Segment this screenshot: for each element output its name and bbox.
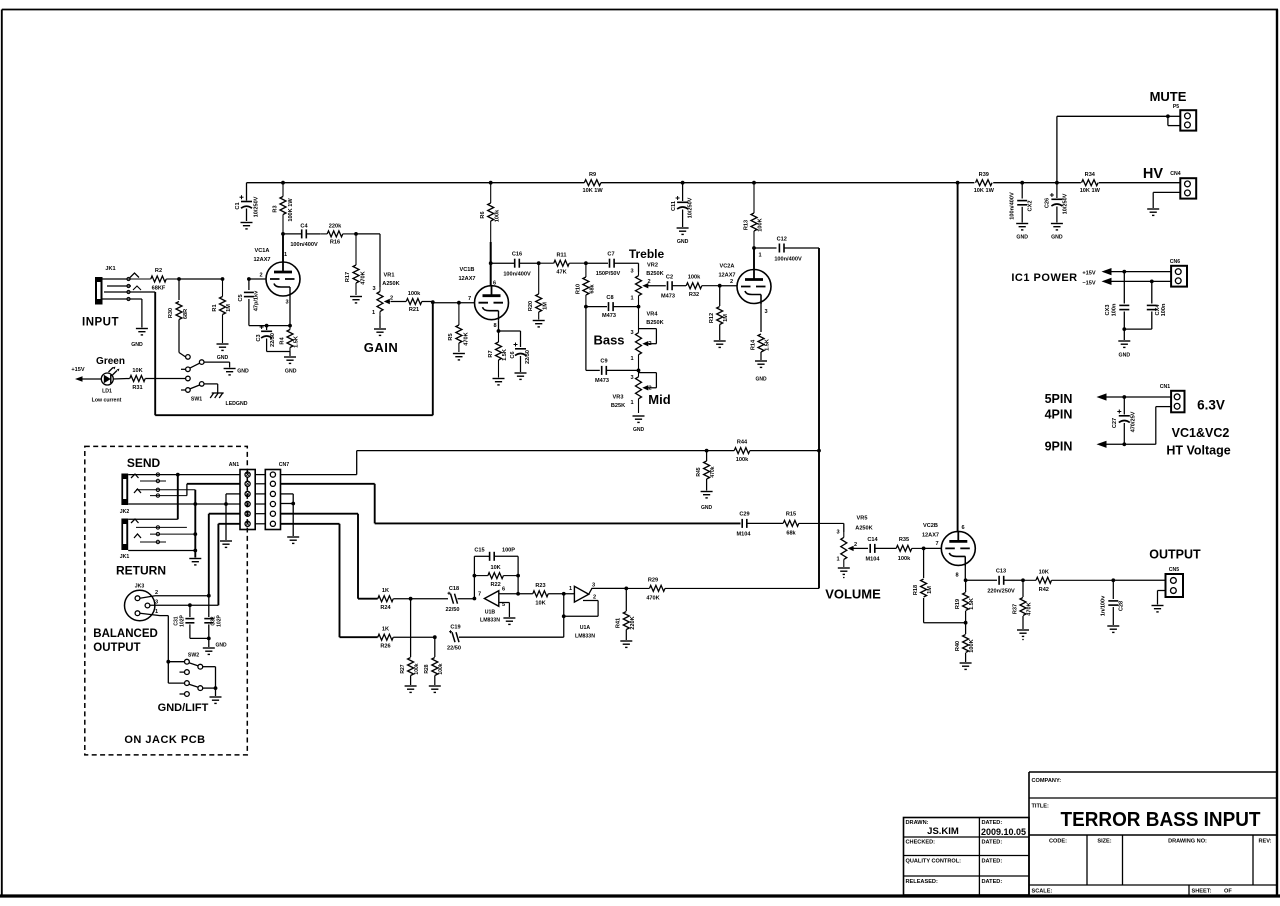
resistor R3 <box>273 183 295 234</box>
svg-text:100k: 100k <box>898 556 911 562</box>
node R35/R18 <box>922 547 926 551</box>
op-amp U1B LM833N <box>473 587 506 624</box>
capacitor C16 <box>491 252 539 278</box>
wire HT to VC2B plate <box>957 183 959 532</box>
wire CN4 ground <box>1153 192 1180 208</box>
ground below R1 <box>217 344 229 361</box>
connector JK2 send jack <box>120 473 240 515</box>
capacitor C28 <box>1101 580 1125 625</box>
svg-text:VC1A: VC1A <box>255 248 270 254</box>
svg-text:B25K: B25K <box>611 403 625 409</box>
label VC2A <box>718 264 735 279</box>
svg-text:CN4: CN4 <box>1170 171 1180 177</box>
connector CN5 <box>1166 567 1184 597</box>
svg-text:R14: R14 <box>751 339 757 350</box>
svg-text:C7: C7 <box>607 252 614 258</box>
svg-text:GND: GND <box>237 369 249 375</box>
svg-text:22/50: 22/50 <box>447 646 461 652</box>
wire MUTE branch <box>1057 114 1180 182</box>
ground below R27 <box>405 686 417 692</box>
node C12/R44 <box>817 449 821 453</box>
resistor R16 <box>320 224 356 246</box>
resistor R39 <box>974 172 995 194</box>
svg-text:102P: 102P <box>180 615 186 627</box>
node R11/R10/C7 <box>584 261 588 265</box>
svg-text:8: 8 <box>493 323 496 329</box>
svg-text:3: 3 <box>836 530 839 536</box>
svg-text:10K: 10K <box>1039 570 1049 576</box>
svg-text:QUALITY CONTROL:: QUALITY CONTROL: <box>906 859 962 865</box>
label SIZE <box>1097 839 1111 845</box>
capacitor C19 <box>447 625 564 652</box>
svg-text:2: 2 <box>593 595 596 601</box>
ground below VR5 <box>838 568 850 578</box>
svg-text:OUTPUT: OUTPUT <box>93 642 140 654</box>
label DATED 2 <box>982 840 1003 846</box>
svg-text:100K: 100K <box>758 218 764 231</box>
svg-text:M473: M473 <box>595 378 609 384</box>
resistor R15 <box>783 512 844 537</box>
ground below C11 <box>677 228 689 245</box>
svg-text:OF: OF <box>1224 889 1232 895</box>
node R32/R12 <box>718 284 722 288</box>
resistor R10 <box>576 263 596 306</box>
svg-text:JK1: JK1 <box>120 554 130 560</box>
svg-text:C12: C12 <box>777 237 787 243</box>
node grid VC1B <box>431 300 461 304</box>
svg-text:CX3: CX3 <box>1105 305 1111 316</box>
svg-text:R39: R39 <box>979 172 989 178</box>
svg-text:AN1: AN1 <box>229 462 239 468</box>
ground below C28 <box>1107 626 1119 632</box>
wire CX3 CX4 common <box>1122 327 1151 340</box>
potentiometer VR1 A250K <box>372 273 400 317</box>
svg-text:1.5K: 1.5K <box>969 598 975 610</box>
wire +15V arrow <box>75 376 101 381</box>
resistor R11 <box>539 253 586 276</box>
wire cathode VC1B <box>497 320 521 333</box>
wire feedback loop to input jack <box>155 292 433 415</box>
capacitor C7 <box>586 252 639 278</box>
svg-text:100k: 100k <box>736 457 749 463</box>
wire AN1 pin3 ground <box>224 494 240 540</box>
ground below R37 <box>1017 630 1029 640</box>
label MUTE <box>1150 89 1187 104</box>
svg-text:1M: 1M <box>543 302 549 310</box>
svg-text:LEDGND: LEDGND <box>226 401 248 407</box>
node R1 grid line <box>221 277 225 281</box>
capacitor C4 <box>283 224 320 249</box>
ground below CX2 <box>1016 224 1028 241</box>
svg-text:68KF: 68KF <box>152 286 166 292</box>
svg-text:10/250V: 10/250V <box>1063 193 1069 214</box>
wire SW1 to GND <box>204 362 230 367</box>
node R24/R27 <box>409 597 413 601</box>
wire +15V line <box>1102 268 1172 275</box>
svg-text:3: 3 <box>630 269 633 275</box>
wire send tip to return tip <box>177 475 179 520</box>
label HT Voltage <box>1166 444 1230 458</box>
svg-text:100k: 100k <box>688 275 701 281</box>
resistor R45 <box>696 451 716 491</box>
wire SW2 common <box>203 667 218 696</box>
svg-text:Mid: Mid <box>648 392 670 407</box>
svg-text:8: 8 <box>955 573 958 579</box>
potentiometer VR5 A250K <box>836 516 872 568</box>
svg-text:22/50: 22/50 <box>525 350 531 364</box>
resistor R5 <box>448 303 470 352</box>
label RETURN <box>116 564 166 578</box>
feedback network U1B vertical left <box>473 556 477 598</box>
svg-text:GND: GND <box>677 239 689 245</box>
svg-text:R16: R16 <box>330 240 340 246</box>
label Mid <box>648 392 670 407</box>
svg-text:SEND: SEND <box>127 456 161 470</box>
svg-text:CN1: CN1 <box>1160 384 1170 390</box>
svg-text:1K: 1K <box>382 627 389 633</box>
svg-text:3: 3 <box>630 330 633 336</box>
switch SW1 <box>181 355 204 403</box>
capacitor C2 <box>649 275 686 300</box>
op-amp U1A LM833N <box>562 583 596 640</box>
node VR4 bottom / C9 <box>637 369 641 373</box>
svg-text:470K: 470K <box>464 332 470 345</box>
node R2/R30 <box>177 277 181 281</box>
svg-text:HT Voltage: HT Voltage <box>1166 444 1230 458</box>
svg-text:R34: R34 <box>1085 172 1096 178</box>
ground below R17 <box>350 297 362 303</box>
wire grid VC2A <box>720 285 737 287</box>
svg-text:10K 1W: 10K 1W <box>974 188 995 194</box>
capacitor C1 <box>235 183 260 221</box>
capacitor CX3 <box>1105 272 1129 330</box>
label VOLUME <box>825 587 881 602</box>
svg-text:100n: 100n <box>1161 303 1167 316</box>
wire send ground bus <box>193 490 197 558</box>
potentiometer VR3 B25K <box>611 370 652 413</box>
ground below R4 <box>284 357 297 375</box>
resistor R1 <box>179 279 232 343</box>
connector CN4 <box>1170 171 1196 199</box>
capacitor C29 <box>737 512 784 538</box>
resistor R7 <box>488 331 508 378</box>
svg-text:SW1: SW1 <box>191 397 202 403</box>
wire CN7 pin1 to R44 line <box>281 451 707 475</box>
svg-text:1.5K: 1.5K <box>765 339 771 351</box>
svg-text:R42: R42 <box>1039 587 1049 593</box>
ground AN1 pin3 <box>220 541 232 547</box>
wire CN7 pin5 to R24 <box>281 514 378 599</box>
svg-text:22/50: 22/50 <box>270 333 276 347</box>
resistor R35 <box>896 537 923 562</box>
wire VR4 wiper loop <box>639 329 657 344</box>
ground below R7 <box>493 379 505 385</box>
connector AN1 <box>229 462 255 530</box>
svg-text:C5: C5 <box>238 294 244 301</box>
svg-text:2: 2 <box>155 590 158 596</box>
svg-text:6: 6 <box>493 281 496 287</box>
svg-text:R3: R3 <box>273 205 279 212</box>
svg-text:C28: C28 <box>1119 601 1125 611</box>
node XLR pin2 <box>207 594 211 598</box>
svg-text:3: 3 <box>285 300 288 306</box>
wire plate VC2A <box>753 248 755 270</box>
svg-text:2: 2 <box>730 279 733 285</box>
svg-text:9PIN: 9PIN <box>1045 440 1073 454</box>
svg-text:150P/50V: 150P/50V <box>596 271 621 277</box>
node R16/R17 junction <box>354 232 358 236</box>
label GND/LIFT <box>158 702 209 714</box>
svg-text:C3: C3 <box>256 334 262 341</box>
svg-text:R2: R2 <box>155 268 162 274</box>
ground below JK1 <box>131 329 148 349</box>
svg-text:INPUT: INPUT <box>82 317 119 329</box>
svg-text:U1B: U1B <box>485 610 496 616</box>
svg-text:C29: C29 <box>739 512 749 518</box>
svg-text:6: 6 <box>961 525 964 531</box>
svg-text:GND: GND <box>131 342 143 348</box>
svg-text:P5: P5 <box>1173 104 1179 110</box>
ground below R20 <box>533 321 545 327</box>
label VC1A <box>0 0 1 1</box>
resistor R19 <box>955 580 975 622</box>
svg-text:68R: 68R <box>183 309 189 319</box>
ground below CX3 <box>1118 341 1130 359</box>
svg-text:6.3V: 6.3V <box>1197 398 1225 413</box>
capacitor C13 <box>966 569 1023 595</box>
ground below C6 <box>515 373 527 379</box>
capacitor C8 <box>586 295 639 319</box>
svg-text:C9: C9 <box>600 359 607 365</box>
resistor R14 <box>751 295 771 361</box>
wire AN1-CN7 links <box>255 475 265 524</box>
ground below C1 <box>241 223 253 229</box>
svg-text:R4: R4 <box>280 337 286 345</box>
svg-text:VR5: VR5 <box>857 516 868 522</box>
svg-text:2: 2 <box>647 279 650 285</box>
svg-text:C8: C8 <box>606 295 613 301</box>
svg-text:JK2: JK2 <box>120 509 130 515</box>
connector JK1 return jack <box>120 519 196 561</box>
svg-text:1: 1 <box>836 557 839 563</box>
svg-text:1: 1 <box>630 356 633 362</box>
capacitor C12 <box>754 237 819 263</box>
label TITLE <box>1032 804 1050 810</box>
svg-text:R18: R18 <box>913 585 919 595</box>
label OUTPUT <box>1149 548 1201 562</box>
potentiometer VR4 B250K <box>630 307 663 370</box>
ground U1B pin5 <box>503 618 515 624</box>
svg-text:LM833N: LM833N <box>575 634 595 640</box>
svg-text:JS.KIM: JS.KIM <box>927 826 959 837</box>
connector P5 <box>1173 104 1196 131</box>
svg-text:VR3: VR3 <box>613 395 624 401</box>
label 4PIN <box>1045 408 1073 422</box>
LED LD1 Green <box>92 356 125 404</box>
svg-text:R28: R28 <box>424 664 430 673</box>
svg-text:R13: R13 <box>744 220 750 230</box>
resistor R2 <box>131 268 179 292</box>
svg-text:C15: C15 <box>474 548 484 554</box>
svg-text:M104: M104 <box>737 532 752 538</box>
resistor R26 <box>378 627 435 650</box>
svg-text:3: 3 <box>372 286 375 292</box>
svg-text:VR4: VR4 <box>647 312 659 318</box>
svg-text:10K: 10K <box>535 601 545 607</box>
wire cathode VC1A <box>265 297 292 328</box>
wire grid VC2B <box>924 547 942 549</box>
svg-text:100K 1W: 100K 1W <box>288 198 294 222</box>
chassis ground LEDGND <box>210 393 248 407</box>
svg-text:22/50: 22/50 <box>446 607 460 613</box>
label CODE <box>1049 839 1067 845</box>
node cathode bias <box>964 621 968 625</box>
tube VC2A 12AX7 <box>730 253 771 316</box>
ground SW1 <box>224 369 249 375</box>
node R44/R45 <box>705 449 709 453</box>
svg-text:1M: 1M <box>723 314 729 322</box>
resistor R12 <box>709 286 729 340</box>
ground below VR3 <box>633 416 645 433</box>
svg-text:MUTE: MUTE <box>1150 89 1187 104</box>
label DATED 1 <box>981 820 1026 837</box>
ground below R5 <box>453 354 465 360</box>
label VC1B <box>458 267 475 282</box>
node R13/C12 <box>752 246 756 250</box>
ground below R28 <box>429 686 441 692</box>
svg-text:CHECKED:: CHECKED: <box>906 840 936 846</box>
svg-text:DATED:: DATED: <box>982 820 1003 826</box>
label GAIN <box>364 340 399 355</box>
svg-text:B250K: B250K <box>646 271 663 277</box>
label SCALE <box>1032 889 1053 895</box>
svg-text:DRAWN:: DRAWN: <box>906 820 929 826</box>
node R42/C28 <box>1111 578 1115 582</box>
label INPUT <box>82 317 119 329</box>
svg-text:R44: R44 <box>737 440 748 446</box>
resistor R6 <box>480 183 501 242</box>
svg-text:SW2: SW2 <box>188 653 199 659</box>
svg-text:5PIN: 5PIN <box>1045 392 1073 406</box>
ground below CN5 <box>1152 606 1164 612</box>
svg-text:R19: R19 <box>955 599 961 609</box>
svg-text:R15: R15 <box>786 512 796 518</box>
svg-text:3: 3 <box>630 375 633 381</box>
svg-text:A250K: A250K <box>382 281 399 287</box>
svg-text:7: 7 <box>468 296 471 302</box>
svg-text:100n/400V: 100n/400V <box>774 257 802 263</box>
svg-text:R32: R32 <box>689 292 699 298</box>
wire send ring to AN1 pin2 <box>187 484 240 496</box>
svg-text:47K: 47K <box>556 270 566 276</box>
wire AN1 pin6 branch <box>218 524 240 605</box>
label SHEET OF <box>1192 889 1233 895</box>
svg-text:C6: C6 <box>510 351 516 358</box>
svg-text:Green: Green <box>96 356 125 367</box>
resistor R17 <box>345 234 367 295</box>
svg-text:R1: R1 <box>212 304 218 311</box>
svg-text:12AX7: 12AX7 <box>718 273 735 279</box>
ground below R12 <box>714 341 726 347</box>
resistor R40 <box>955 623 975 662</box>
svg-text:U1A: U1A <box>580 625 591 631</box>
svg-text:470/25V: 470/25V <box>1131 411 1137 432</box>
wire C31 C32 common <box>190 637 211 648</box>
svg-text:3: 3 <box>592 583 595 589</box>
svg-text:ON JACK PCB: ON JACK PCB <box>124 734 205 746</box>
svg-text:GND: GND <box>285 369 297 375</box>
wire R18 to cathode bias <box>924 622 966 624</box>
capacitor C9 <box>595 359 639 385</box>
svg-text:R10: R10 <box>576 284 582 294</box>
svg-text:100n/400V: 100n/400V <box>290 242 318 248</box>
svg-text:3: 3 <box>764 309 767 315</box>
wire AN1 pin5 branch <box>209 514 240 596</box>
svg-text:470k: 470k <box>710 466 716 477</box>
label DATED 4 <box>982 879 1003 885</box>
svg-text:GND: GND <box>755 377 767 383</box>
capacitor C3 <box>256 325 276 352</box>
svg-text:47p/1kv: 47p/1kv <box>254 290 260 311</box>
svg-text:GND: GND <box>1016 235 1028 241</box>
resistor R24 <box>378 588 411 611</box>
node R3/C4/plate junction <box>281 232 285 236</box>
label IC1 POWER <box>1011 272 1077 284</box>
capacitor CX4 <box>1147 281 1167 329</box>
label COMPANY <box>1032 778 1062 784</box>
ground below SW2 <box>210 697 222 703</box>
svg-text:VC1&VC2: VC1&VC2 <box>1172 426 1230 440</box>
wire SW1 to LEDGND <box>204 384 218 393</box>
svg-text:LM833N: LM833N <box>480 618 500 624</box>
svg-text:12AX7: 12AX7 <box>253 257 270 263</box>
svg-text:DRAWING NO:: DRAWING NO: <box>1168 839 1207 845</box>
svg-text:JK1: JK1 <box>105 266 115 272</box>
wire grid VC1A <box>249 278 266 280</box>
svg-text:GND/LIFT: GND/LIFT <box>158 702 209 714</box>
svg-text:R9: R9 <box>589 172 596 178</box>
title TERROR BASS INPUT <box>1061 808 1261 831</box>
resistor R28 <box>424 637 444 685</box>
svg-text:+15V: +15V <box>71 367 84 373</box>
svg-text:100K: 100K <box>969 639 975 652</box>
wire HT supply bus <box>247 182 1181 184</box>
svg-text:C2: C2 <box>666 275 673 281</box>
svg-text:10K 1W: 10K 1W <box>1080 188 1101 194</box>
label Treble <box>629 247 665 261</box>
resistor R13 <box>744 183 764 248</box>
node C16/R20 <box>537 261 541 265</box>
svg-text:100n: 100n <box>1112 303 1118 316</box>
resistor R27 <box>400 599 420 685</box>
wire 9PIN line <box>1097 407 1172 448</box>
svg-text:470K: 470K <box>1027 602 1033 615</box>
label VC1&VC2 <box>1172 426 1230 440</box>
svg-text:GND: GND <box>1051 235 1063 241</box>
svg-text:10K 1W: 10K 1W <box>582 188 603 194</box>
svg-text:100k: 100k <box>438 663 444 674</box>
capacitor C11 <box>671 183 694 227</box>
svg-text:C19: C19 <box>450 625 460 631</box>
svg-text:DATED:: DATED: <box>982 840 1003 846</box>
svg-text:CN7: CN7 <box>279 462 289 468</box>
svg-text:3: 3 <box>155 600 158 606</box>
svg-text:10K: 10K <box>132 368 142 374</box>
svg-text:R17: R17 <box>345 272 351 282</box>
svg-text:C1: C1 <box>235 202 241 209</box>
resistor R21 <box>391 291 475 313</box>
label DRAWN <box>906 820 959 837</box>
